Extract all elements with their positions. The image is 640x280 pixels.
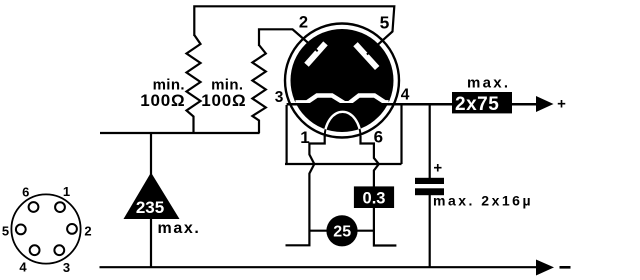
svg-text:max.: max. (158, 220, 201, 237)
svg-text:2: 2 (84, 224, 91, 239)
svg-text:4: 4 (401, 86, 410, 103)
rail arrow (536, 260, 554, 276)
wire: pin 4 vertical down to tie line (400, 105, 402, 164)
tube blackened anode disc (291, 29, 394, 132)
anode bar pin 5 (white) (356, 44, 378, 68)
socket hole pin 4 (30, 245, 40, 255)
minus sign at rail (560, 266, 571, 269)
svg-text:6: 6 (374, 127, 383, 146)
svg-text:max.: max. (467, 75, 510, 92)
wire: bottom negative rail (100, 266, 538, 268)
wire: 25 circle right lead (358, 230, 374, 232)
wire: transformer branch through 235V triangle down to bottom rail (150, 133, 152, 267)
socket hole pin 5 (16, 225, 26, 235)
output arrow (536, 96, 554, 112)
cathode dome arc white (on disc) (325, 112, 361, 137)
filament zigzag (white) (296, 96, 389, 104)
anode 5 lead line (367, 32, 393, 55)
anode bar pin 2 (white) (307, 43, 326, 64)
socket hole pin 6 (29, 202, 39, 212)
socket hole pin 2 (67, 224, 77, 234)
socket base diagram circle (11, 194, 80, 263)
wire: pin 1 heater lead with crossover hop, to 25V line and stub (286, 136, 325, 245)
svg-text:max. 2x16µ: max. 2x16µ (433, 193, 533, 209)
wire: tie line pin3 to pin4 (cathode tie) (285, 163, 402, 165)
svg-text:4: 4 (19, 260, 27, 275)
resistor R1 (min. 100 ohm) (187, 35, 201, 133)
svg-text:1: 1 (63, 184, 70, 199)
wire: 25 circle left lead (309, 230, 327, 232)
svg-text:25: 25 (333, 224, 351, 241)
svg-text:+: + (433, 160, 442, 177)
anode 2 lead line (293, 29, 318, 51)
svg-text:100Ω: 100Ω (201, 91, 246, 110)
wire: pin 3 vertical down to tie line (286, 105, 288, 164)
wire: main output line pin3-pin4 to + terminal (287, 103, 536, 106)
wire: R1 top lead, top loop, diagonal to anode pin 5 (194, 6, 394, 54)
capacitor C (reservoir) plates (415, 178, 444, 184)
resistor R2 (min. 100 ohm) (252, 45, 265, 133)
wire: HT input line left (100, 132, 260, 134)
svg-text:100Ω: 100Ω (140, 91, 185, 110)
svg-text:6: 6 (22, 185, 29, 200)
svg-text:5: 5 (380, 12, 390, 32)
socket hole pin 3 (54, 245, 64, 255)
svg-text:235: 235 (136, 198, 164, 217)
heater voltage circle 25 (326, 215, 357, 246)
wire: capacitor bottom lead to rail (429, 195, 431, 268)
svg-text:3: 3 (63, 260, 70, 275)
output current box 2x75 (452, 92, 512, 113)
current box 0.3 (354, 186, 394, 208)
cathode dome arc black (visible outside disc) (325, 112, 361, 137)
svg-text:2x75: 2x75 (455, 94, 499, 115)
svg-text:3: 3 (275, 89, 284, 106)
svg-text:+: + (557, 96, 566, 113)
svg-text:2: 2 (299, 14, 308, 32)
voltage triangle 235 (124, 173, 180, 220)
svg-text:1: 1 (300, 128, 309, 147)
wire: R2 top lead, horizontal, diagonal to anode pin 2 (259, 29, 318, 51)
svg-text:5: 5 (2, 224, 9, 239)
svg-text:0.3: 0.3 (363, 190, 386, 208)
wire: pin 6 heater lead with crossover hop, through 0.3 box down to stub (361, 136, 397, 246)
tube envelope outline (285, 24, 399, 138)
socket hole pin 1 (55, 202, 65, 212)
wire: capacitor top lead from output line (429, 104, 431, 178)
